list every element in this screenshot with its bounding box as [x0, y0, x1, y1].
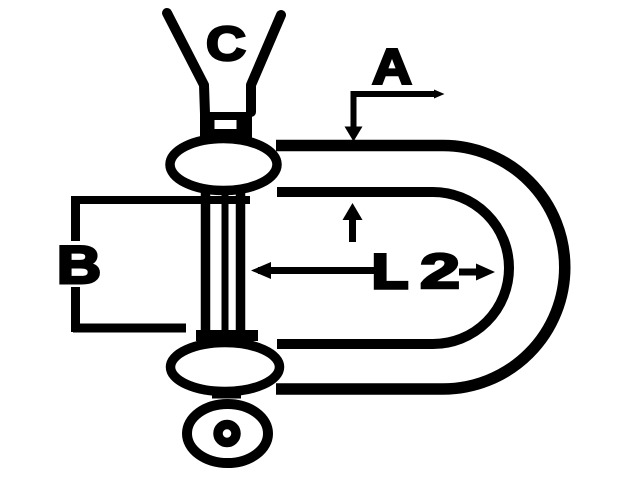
- svg-text:2: 2: [420, 245, 460, 299]
- svg-text:C: C: [206, 18, 246, 71]
- wire: B bracket bottom horizontal line: [73, 324, 186, 333]
- svg-text:L: L: [372, 246, 408, 299]
- arrowhead A down: [345, 127, 363, 142]
- shackle bottom ear ellipse: [171, 343, 280, 392]
- wire: A dimension horizontal line: [354, 91, 438, 97]
- wire: L2 dimension right arrow shaft: [459, 269, 477, 276]
- washer bar between ear and pin end: [212, 392, 241, 399]
- wire: shackle attachment funnel left line: [167, 13, 205, 114]
- pin end circle: [187, 404, 268, 463]
- shackle bow outer contour: [276, 146, 565, 390]
- pin end hole dot: [218, 425, 236, 443]
- wire: L2 dimension left arrow shaft: [258, 267, 377, 274]
- arrowhead up: [343, 203, 363, 220]
- arrowhead L2 left: [251, 262, 271, 279]
- svg-text:A: A: [372, 39, 412, 95]
- pin bottom collar bar: [196, 330, 258, 341]
- shackle top ear ellipse: [170, 139, 277, 191]
- pin head rectangle: [200, 112, 252, 138]
- svg-text:B: B: [57, 236, 101, 295]
- arrowhead A right: [434, 90, 445, 99]
- pin shank right edge: [236, 190, 246, 336]
- arrowhead L2 right: [476, 264, 495, 281]
- pin head window: [215, 120, 237, 129]
- wire: shackle attachment funnel right line: [251, 15, 281, 112]
- wire: B bracket top horizontal line: [73, 196, 250, 204]
- wire: B bracket left vertical upper segment: [71, 196, 80, 241]
- wire: inner arrow up shaft: [349, 216, 356, 242]
- shackle bow inner contour: [277, 192, 509, 344]
- pin shank middle line: [222, 192, 229, 334]
- pin shank left edge: [201, 190, 211, 336]
- wire: B bracket left vertical lower segment: [71, 287, 80, 332]
- wire: A dimension vertical line: [351, 91, 357, 127]
